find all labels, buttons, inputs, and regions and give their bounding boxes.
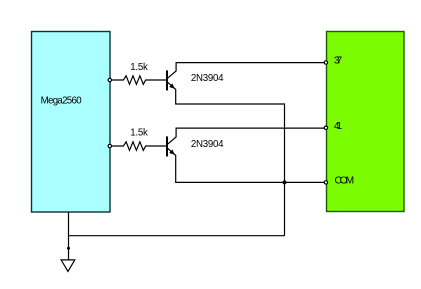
svg-text:Mega2560: Mega2560 [41,95,83,106]
svg-text:2N3904: 2N3904 [191,139,224,150]
svg-text:37: 37 [334,56,343,67]
svg-text:41: 41 [334,121,343,132]
svg-text:1.5k: 1.5k [130,128,148,139]
svg-text:2N3904: 2N3904 [191,73,224,84]
svg-text:COM: COM [335,176,355,187]
svg-text:1.5k: 1.5k [130,62,148,73]
